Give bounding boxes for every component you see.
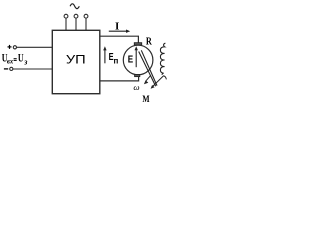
torque arrow M (153, 76, 167, 87)
converter EMF arrow Ep (104, 49, 106, 63)
terminal stem 1 (65, 18, 67, 30)
shaft line 1 (139, 52, 156, 87)
svg-text:вх: вх (7, 58, 14, 66)
svg-text:ω: ω (133, 82, 139, 92)
terminal stem 2 (75, 18, 77, 30)
wire armature top (100, 36, 138, 43)
wire armature bottom (100, 77, 139, 81)
block UP (amplifier-converter) (52, 30, 100, 93)
terminal circle 1 (64, 14, 68, 18)
AC supply tilde (70, 4, 79, 9)
plus sign (8, 45, 12, 49)
svg-text:п: п (114, 57, 119, 66)
svg-text:УП: УП (66, 52, 86, 66)
EMF arrow (135, 49, 137, 67)
terminal circle 3 (84, 14, 88, 18)
minus sign (4, 68, 8, 70)
svg-text:з: з (23, 57, 27, 66)
wire input - (13, 68, 52, 70)
brush bottom (135, 75, 140, 77)
wire input + (17, 46, 53, 48)
motor armature circle (123, 45, 153, 75)
shaft line 2 (141, 50, 157, 85)
omega arrow (146, 75, 151, 81)
svg-text:R: R (146, 36, 153, 47)
svg-text:М: М (142, 95, 149, 105)
svg-text:E: E (128, 53, 133, 65)
input terminal + (13, 46, 16, 49)
terminal circle 2 (74, 14, 78, 18)
terminal stem 3 (85, 18, 87, 30)
label Uvx = Uz (2, 53, 28, 67)
current arrow I (109, 30, 127, 32)
brush top (134, 43, 141, 45)
svg-text:I: I (115, 21, 119, 33)
field winding coil (160, 43, 165, 75)
input terminal - (10, 67, 13, 70)
